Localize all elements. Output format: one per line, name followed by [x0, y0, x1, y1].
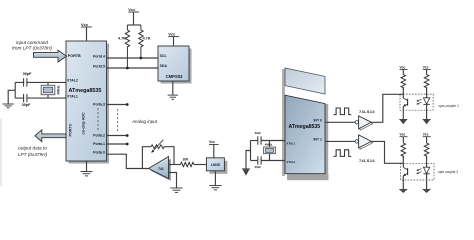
ground (opto1 left, arrow style) [399, 120, 407, 125]
svg-text:from LPT (0x378H): from LPT (0x378H) [12, 46, 52, 51]
optocoupler 1 dashed box [400, 94, 433, 110]
junction R2-SCL [140, 57, 143, 60]
svg-text:4MHz: 4MHz [56, 85, 60, 94]
svg-text:INT 0: INT 0 [313, 119, 322, 123]
svg-text:30pF: 30pF [23, 72, 32, 76]
wire SDA (Portd.5 to CMPS03) [107, 67, 159, 69]
ground (op-amp) [170, 188, 182, 192]
svg-text:Portd.5: Portd.5 [93, 64, 105, 68]
ground (opto2 left, arrow style) [399, 189, 407, 193]
Vcc (LM35) [209, 140, 219, 158]
wire caps left vertical (right) [250, 141, 252, 161]
svg-text:Porta.0: Porta.0 [93, 150, 105, 154]
wire 10K to LM35 [194, 164, 207, 166]
svg-text:input command: input command [16, 40, 48, 45]
chip U2 CMPS03 body [158, 46, 189, 81]
chip U1 ATmega8535 shadow [69, 44, 110, 164]
wire Porta.2 [107, 135, 127, 137]
Vcc (opto1 left) [400, 65, 408, 73]
LED (opto2) [423, 156, 429, 189]
potentiometer RV1 [151, 140, 164, 153]
inverter 74LS14 #2 shadow [360, 136, 373, 149]
chip U1 ATmega8535 body [66, 41, 107, 161]
wire inverter1 to opto1 [371, 94, 403, 122]
node Porta.2 [126, 134, 129, 137]
svg-text:output data to: output data to [18, 146, 47, 151]
svg-text:Porta.1: Porta.1 [93, 142, 105, 146]
capacitor C4 30pF (right bottom) [257, 156, 261, 164]
dashed continuation outside chip [117, 109, 119, 131]
ground (chip U1) [81, 161, 93, 176]
output arrow (to LPT) [35, 130, 66, 142]
resistor R6 (opto2 left) [401, 142, 406, 159]
chip U2 CMPS03 shadow [161, 49, 192, 84]
wire XTAL2 top (crystal top wire) [15, 81, 66, 83]
svg-text:INT 1: INT 1 [313, 137, 322, 141]
ground (opto1 right, arrow style) [423, 120, 431, 125]
svg-text:741: 741 [158, 167, 164, 171]
svg-text:PORTC: PORTC [69, 123, 73, 136]
wire pot right to op-amp input [164, 147, 174, 165]
sensor U4 LM35 shadow [209, 161, 227, 174]
input arrow (from LPT) [34, 50, 67, 62]
dashed continuation inside chip [97, 108, 99, 131]
svg-text:74LS14: 74LS14 [359, 110, 375, 114]
svg-text:SCL: SCL [160, 54, 168, 58]
chip U5 left 3D face [282, 69, 285, 176]
svg-text:10K: 10K [183, 157, 190, 161]
resistor R7 (opto2 right) [424, 142, 429, 159]
svg-text:Analog input: Analog input [131, 119, 158, 124]
svg-text:Portd.4: Portd.4 [93, 54, 105, 58]
svg-text:Porta.2: Porta.2 [93, 134, 105, 138]
ground (right crystal, arrow style) [242, 169, 250, 176]
svg-text:Vcc: Vcc [400, 133, 406, 137]
svg-text:XTAL1: XTAL1 [67, 94, 78, 98]
wire XTAL1 (right) [258, 140, 285, 142]
optocoupler 2 dashed box [401, 163, 435, 180]
ground (caps) [2, 104, 14, 108]
wire op-amp - input to ground [169, 173, 177, 188]
ground (CMPS03) [168, 81, 178, 99]
wire Porta.3 [107, 104, 127, 106]
ground (LM35) [209, 171, 221, 190]
wire XTAL2 (right) [258, 160, 285, 162]
wire inverter2 to opto2 [371, 141, 403, 163]
svg-text:74LS14: 74LS14 [359, 159, 375, 163]
wire XTAL1 bottom (crystal bottom wire) [15, 97, 66, 99]
inverter 74LS14 #1 shadow [360, 117, 373, 130]
svg-text:on-chip ADC: on-chip ADC [82, 112, 86, 135]
ground (opto2 right, arrow style) [423, 189, 431, 193]
svg-text:XTAL2: XTAL2 [67, 79, 78, 83]
capacitor C3 30pF (right top) [257, 136, 261, 144]
Vcc (opto2 left) [400, 133, 408, 142]
svg-text:LM35: LM35 [211, 163, 220, 167]
wire to ground (right crystal) [246, 151, 251, 169]
crystal X2 4MHz [264, 141, 276, 161]
wire SCL (Portd.4 to CMPS03) [107, 57, 159, 59]
chip U5 bottom shadow [287, 174, 329, 181]
svg-text:ATmega8535: ATmega8535 [289, 124, 321, 130]
svg-text:PORTB: PORTB [68, 54, 81, 58]
op-amp U3 741 shadow [151, 159, 171, 181]
phototransistor (opto1) [403, 87, 408, 119]
wire feedback vertical (output to pot) [142, 147, 151, 169]
wire Porta.0 to op-amp output [107, 154, 149, 168]
light arrows (opto2) [417, 169, 422, 174]
capacitor C2 30pF (bottom) [23, 94, 27, 102]
chip U5 ATmega8535 body [285, 95, 325, 174]
node Porta.1 [126, 143, 129, 146]
wire to ground from caps [8, 90, 15, 104]
Vcc (CMPS03) [168, 31, 179, 46]
resistor R1 4.7K (left, to SDA) [125, 25, 129, 67]
capacitor C1 30pF (top) [23, 78, 27, 86]
wire caps left stubs [251, 140, 258, 142]
resistor R5 (opto1 right) [424, 73, 429, 89]
resistor R3 10K [181, 162, 194, 166]
svg-text:ATmega8535: ATmega8535 [69, 88, 102, 94]
inverter 74LS14 #1 [355, 116, 371, 129]
sensor U4 LM35 body [206, 158, 224, 171]
LED (opto1) [423, 87, 429, 119]
resistor R4 (opto1 left) [401, 73, 406, 89]
svg-text:4MHz: 4MHz [265, 143, 273, 147]
op-amp U3 741 body [149, 157, 169, 179]
wire INT1 [325, 140, 355, 142]
svg-text:Porta.3: Porta.3 [93, 102, 105, 106]
svg-text:Vcc: Vcc [128, 7, 136, 12]
svg-text:30pF: 30pF [22, 103, 31, 107]
svg-text:Vcc: Vcc [400, 65, 406, 69]
junction R1-SDA [126, 67, 129, 70]
light arrows (opto1) [417, 99, 422, 104]
wire op-amp + input [169, 164, 181, 166]
phototransistor (opto2) [403, 156, 408, 189]
svg-text:opto coupler 2: opto coupler 2 [438, 170, 458, 174]
Vcc (chip U1) [81, 22, 92, 41]
svg-text:SDA: SDA [160, 64, 168, 68]
Vcc (opto2 right) [423, 133, 431, 142]
svg-text:4.7K: 4.7K [143, 37, 151, 41]
svg-text:Vcc: Vcc [209, 140, 215, 144]
node Porta.3 [126, 103, 129, 106]
svg-text:LPT (0x379H): LPT (0x379H) [18, 152, 48, 157]
wire INT0 [325, 121, 355, 123]
svg-text:Vcc: Vcc [423, 133, 429, 137]
svg-text:30pF: 30pF [255, 165, 262, 169]
waveform symbol (INT1) [334, 150, 352, 157]
resistor R2 4.7K (right, to SCL) [139, 25, 143, 57]
svg-text:Vcc: Vcc [168, 31, 176, 36]
Vcc (opto1 right) [423, 65, 431, 73]
inverter 74LS14 #2 [355, 135, 371, 148]
svg-text:XTAL2: XTAL2 [287, 160, 296, 164]
svg-text:XTAL1: XTAL1 [287, 142, 296, 146]
svg-text:CMPS03: CMPS03 [166, 74, 183, 79]
wire caps left vertical [14, 82, 16, 98]
chip U5 right shadow [325, 104, 328, 174]
svg-text:30pF: 30pF [255, 131, 262, 135]
svg-text:opto-coupler 1: opto-coupler 1 [439, 104, 460, 108]
crystal X1 4MHz [41, 82, 55, 98]
wire Porta.1 [107, 143, 127, 145]
svg-text:Vcc: Vcc [423, 65, 429, 69]
svg-text:4.7K: 4.7K [118, 37, 126, 41]
Vcc (pull-up resistors) [127, 7, 140, 25]
chip U5 top slab (break) [285, 68, 325, 94]
svg-text:Vcc: Vcc [81, 22, 89, 27]
waveform symbol (INT0) [334, 108, 352, 115]
